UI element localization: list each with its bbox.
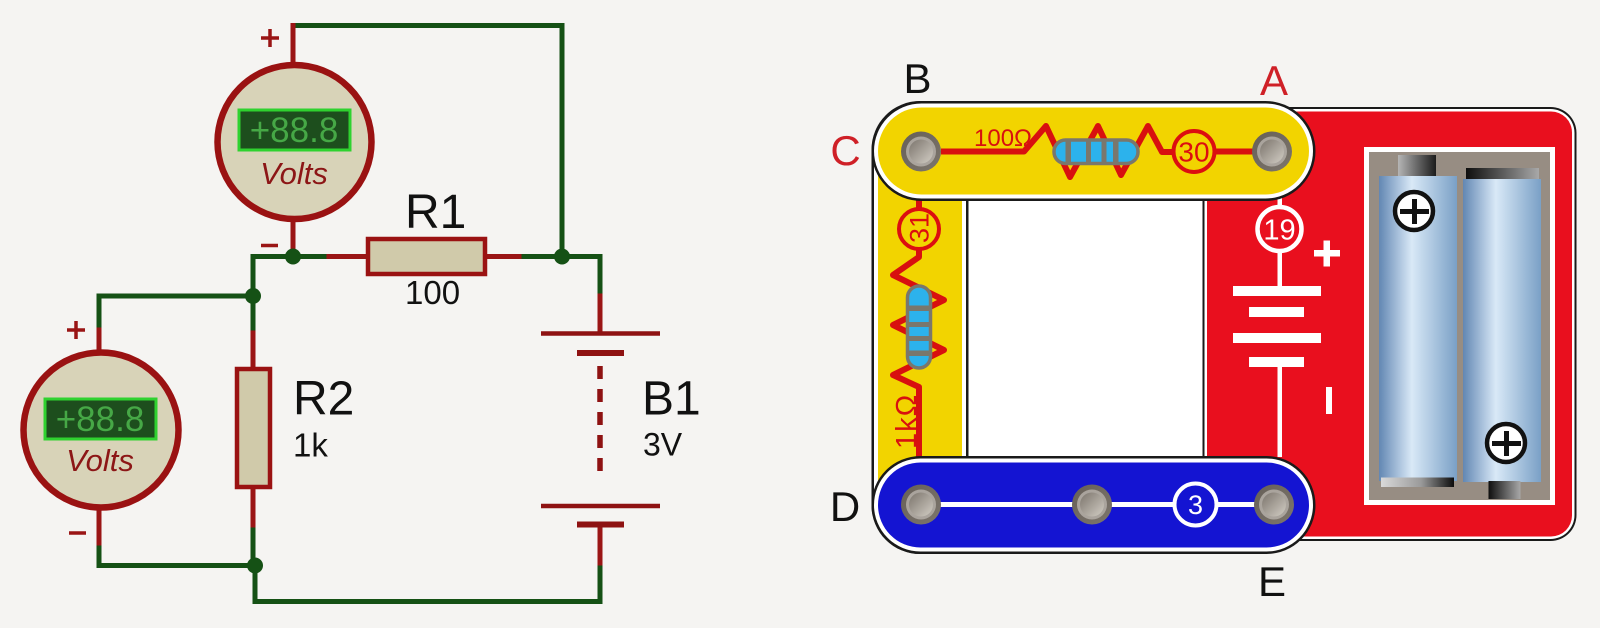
svg-text:B1: B1 (642, 373, 701, 426)
voltmeter VM1 plus sign (261, 29, 279, 47)
snap label 19 (1258, 207, 1302, 251)
battery cell 1 (1398, 155, 1436, 178)
snap stud D (901, 485, 941, 525)
wire node B to R2 (251, 296, 256, 333)
wire R2 top lead (251, 333, 256, 369)
wire strip (blue) (872, 456, 1316, 554)
base plate (919, 151, 1279, 505)
snap stud B/C corner (901, 132, 941, 172)
svg-text:1kΩ: 1kΩ (891, 394, 923, 449)
voltmeter VM1 body (218, 65, 372, 219)
battery B1 symbol (541, 334, 660, 525)
voltmeter VM2 body (24, 353, 179, 508)
svg-text:+88.8: +88.8 (250, 111, 339, 150)
minus marking (1326, 387, 1332, 414)
wire battery to bottom rail (255, 566, 600, 602)
svg-text:+88.8: +88.8 (56, 400, 145, 439)
wire trace (921, 502, 1274, 507)
100 ohm red trace (941, 126, 1253, 177)
svg-text:30: 30 (1178, 137, 1209, 168)
voltmeter VM1 minus sign (261, 244, 278, 248)
1k resistor body icon (908, 286, 931, 368)
plus marking (1314, 250, 1340, 257)
battery holder B1 (red) (1203, 107, 1577, 541)
wire node B to VM2 (99, 296, 253, 330)
snap stud E (1254, 485, 1294, 525)
svg-text:19: 19 (1263, 215, 1295, 247)
node B junction dot (245, 288, 261, 304)
wire R1 right lead (485, 254, 524, 259)
wire VM1 bottom lead (291, 218, 296, 257)
voltmeter VM2 plus sign (67, 321, 85, 339)
snap label 31 (899, 209, 939, 249)
svg-text:100Ω: 100Ω (974, 125, 1032, 152)
battery symbol on holder (1233, 196, 1340, 457)
wire battery top lead (598, 296, 603, 332)
battery cell 2 (1466, 168, 1539, 180)
wire VM2 top lead (97, 330, 102, 353)
node A junction dot (285, 249, 301, 265)
snap stud middle (1072, 485, 1112, 525)
resistor R2 (237, 369, 270, 487)
svg-text:B: B (903, 55, 931, 102)
voltmeter VM1 LCD (239, 110, 350, 150)
voltmeter VM2 minus sign (69, 531, 86, 535)
svg-text:R1: R1 (405, 186, 466, 239)
resistor strip 1k (vertical yellow) (872, 101, 969, 554)
node C junction dot (554, 249, 570, 265)
voltmeter VM2 LCD (45, 399, 156, 439)
svg-text:1k: 1k (293, 427, 328, 464)
100 ohm resistor body icon (1054, 140, 1138, 164)
svg-text:100: 100 (405, 274, 460, 311)
svg-text:31: 31 (905, 213, 935, 243)
wire VM1 top lead (291, 26, 296, 67)
svg-text:3V: 3V (643, 427, 683, 463)
wire node A to node B (253, 257, 293, 297)
1k resistor red trace (893, 168, 944, 490)
wire VM2 to node D (99, 548, 255, 566)
svg-text:D: D (830, 483, 860, 530)
snap label 3 (1175, 484, 1217, 526)
wire top loop VM1+ to battery node (293, 26, 562, 257)
svg-text:3: 3 (1188, 490, 1203, 520)
svg-text:R2: R2 (293, 373, 354, 426)
node D junction dot (247, 558, 263, 574)
svg-text:Volts: Volts (260, 156, 328, 191)
wire R2 bottom lead (251, 487, 256, 530)
svg-text:C: C (830, 127, 860, 174)
wire VM2 bottom lead (97, 508, 102, 548)
svg-text:E: E (1258, 558, 1286, 605)
resistor R1 (368, 239, 485, 274)
svg-text:A: A (1260, 57, 1288, 104)
wire node C to battery top (562, 257, 600, 297)
snap stud A (1252, 132, 1292, 172)
svg-text:Volts: Volts (66, 443, 134, 478)
wire R1 left lead (293, 254, 329, 259)
resistor strip 100 ohm (top yellow) (872, 101, 1316, 201)
wire battery bottom lead (598, 527, 603, 568)
battery compartment (1364, 147, 1555, 505)
snap label 30 (1174, 131, 1215, 172)
